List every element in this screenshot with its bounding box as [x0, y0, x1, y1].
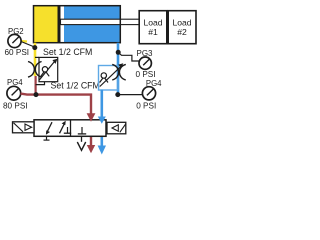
DV1 left box flow arrow b	[60, 123, 65, 134]
node J2 (red bus tee)	[34, 92, 39, 97]
wire blue port arrowhead	[98, 117, 106, 124]
gauge PG2	[5, 27, 30, 57]
load box Load #2	[168, 11, 196, 44]
svg-text:#1: #1	[148, 27, 158, 37]
cylinder C1 barrel outline	[34, 6, 121, 43]
svg-text:Load: Load	[172, 18, 191, 28]
gauge PG4 (right, 0 PSI)	[136, 79, 162, 111]
cylinder C1 rod	[61, 19, 141, 24]
pilot actuator (left) of DV1	[13, 122, 35, 133]
gauge PG4 (left, 80 PSI)	[3, 78, 28, 111]
wire yellow cap-end line	[34, 43, 37, 76]
svg-text:0 PSI: 0 PSI	[136, 102, 156, 111]
DV1 right box blocked port T	[81, 127, 83, 134]
svg-text:PG3: PG3	[137, 49, 154, 58]
svg-text:0 PSI: 0 PSI	[136, 70, 156, 79]
flow control valve FC2 bypass box	[99, 63, 124, 90]
wire PG3 to node J3	[118, 52, 139, 61]
wire FC1 outlet elbow	[36, 82, 45, 85]
exhaust arrow below DV1	[81, 136, 83, 142]
svg-text:#2: #2	[177, 27, 187, 37]
svg-text:PG4: PG4	[7, 78, 23, 87]
wire blue exhaust arrowhead	[98, 146, 106, 155]
wire blue rod-end line	[117, 43, 120, 95]
svg-text:PG2: PG2	[8, 27, 24, 36]
svg-text:80 PSI: 80 PSI	[3, 102, 28, 111]
node J4 (PG4 right tee)	[115, 92, 120, 97]
pilot actuator (right) of DV1	[107, 122, 126, 134]
wire blue FC2 outlet to valve port	[101, 90, 104, 148]
svg-text:Load: Load	[143, 18, 162, 28]
DV1 left box flow arrow a	[47, 122, 52, 132]
port stub below DV1 left box	[46, 136, 48, 140]
wire red supply bus	[21, 94, 92, 147]
wire PG4 right to node J4	[118, 94, 143, 96]
wire red below needle valve FC1	[34, 76, 36, 95]
needle valve pinch FC1	[28, 62, 42, 78]
cylinder C1 cap-end chamber (yellow)	[34, 6, 58, 43]
cylinder C1 rod-end chamber (blue)	[64, 6, 120, 43]
cylinder C1 piston	[58, 6, 61, 43]
wire PG2 to node J1	[21, 42, 35, 48]
svg-text:60 PSI: 60 PSI	[5, 48, 30, 57]
svg-text:Set 1/2 CFM: Set 1/2 CFM	[43, 47, 92, 57]
svg-text:Set 1/2 CFM: Set 1/2 CFM	[51, 80, 100, 90]
wire red exhaust arrowhead	[87, 145, 95, 153]
wire red into valve (arrowhead at port)	[87, 113, 96, 122]
load box Load #1	[139, 11, 167, 44]
wire PG2 to node J1 (yellow stub)	[21, 40, 28, 43]
flow control valve FC1 bypass box	[35, 57, 58, 81]
DV1 left box blocked port T	[67, 127, 69, 133]
node J1 (PG2 tee)	[32, 45, 37, 50]
needle valve pinch FC2	[112, 64, 126, 80]
directional valve DV1 body	[34, 120, 106, 137]
node J3 (PG3 tee)	[116, 50, 121, 55]
gauge PG3	[136, 49, 156, 79]
svg-text:PG4: PG4	[146, 79, 162, 88]
